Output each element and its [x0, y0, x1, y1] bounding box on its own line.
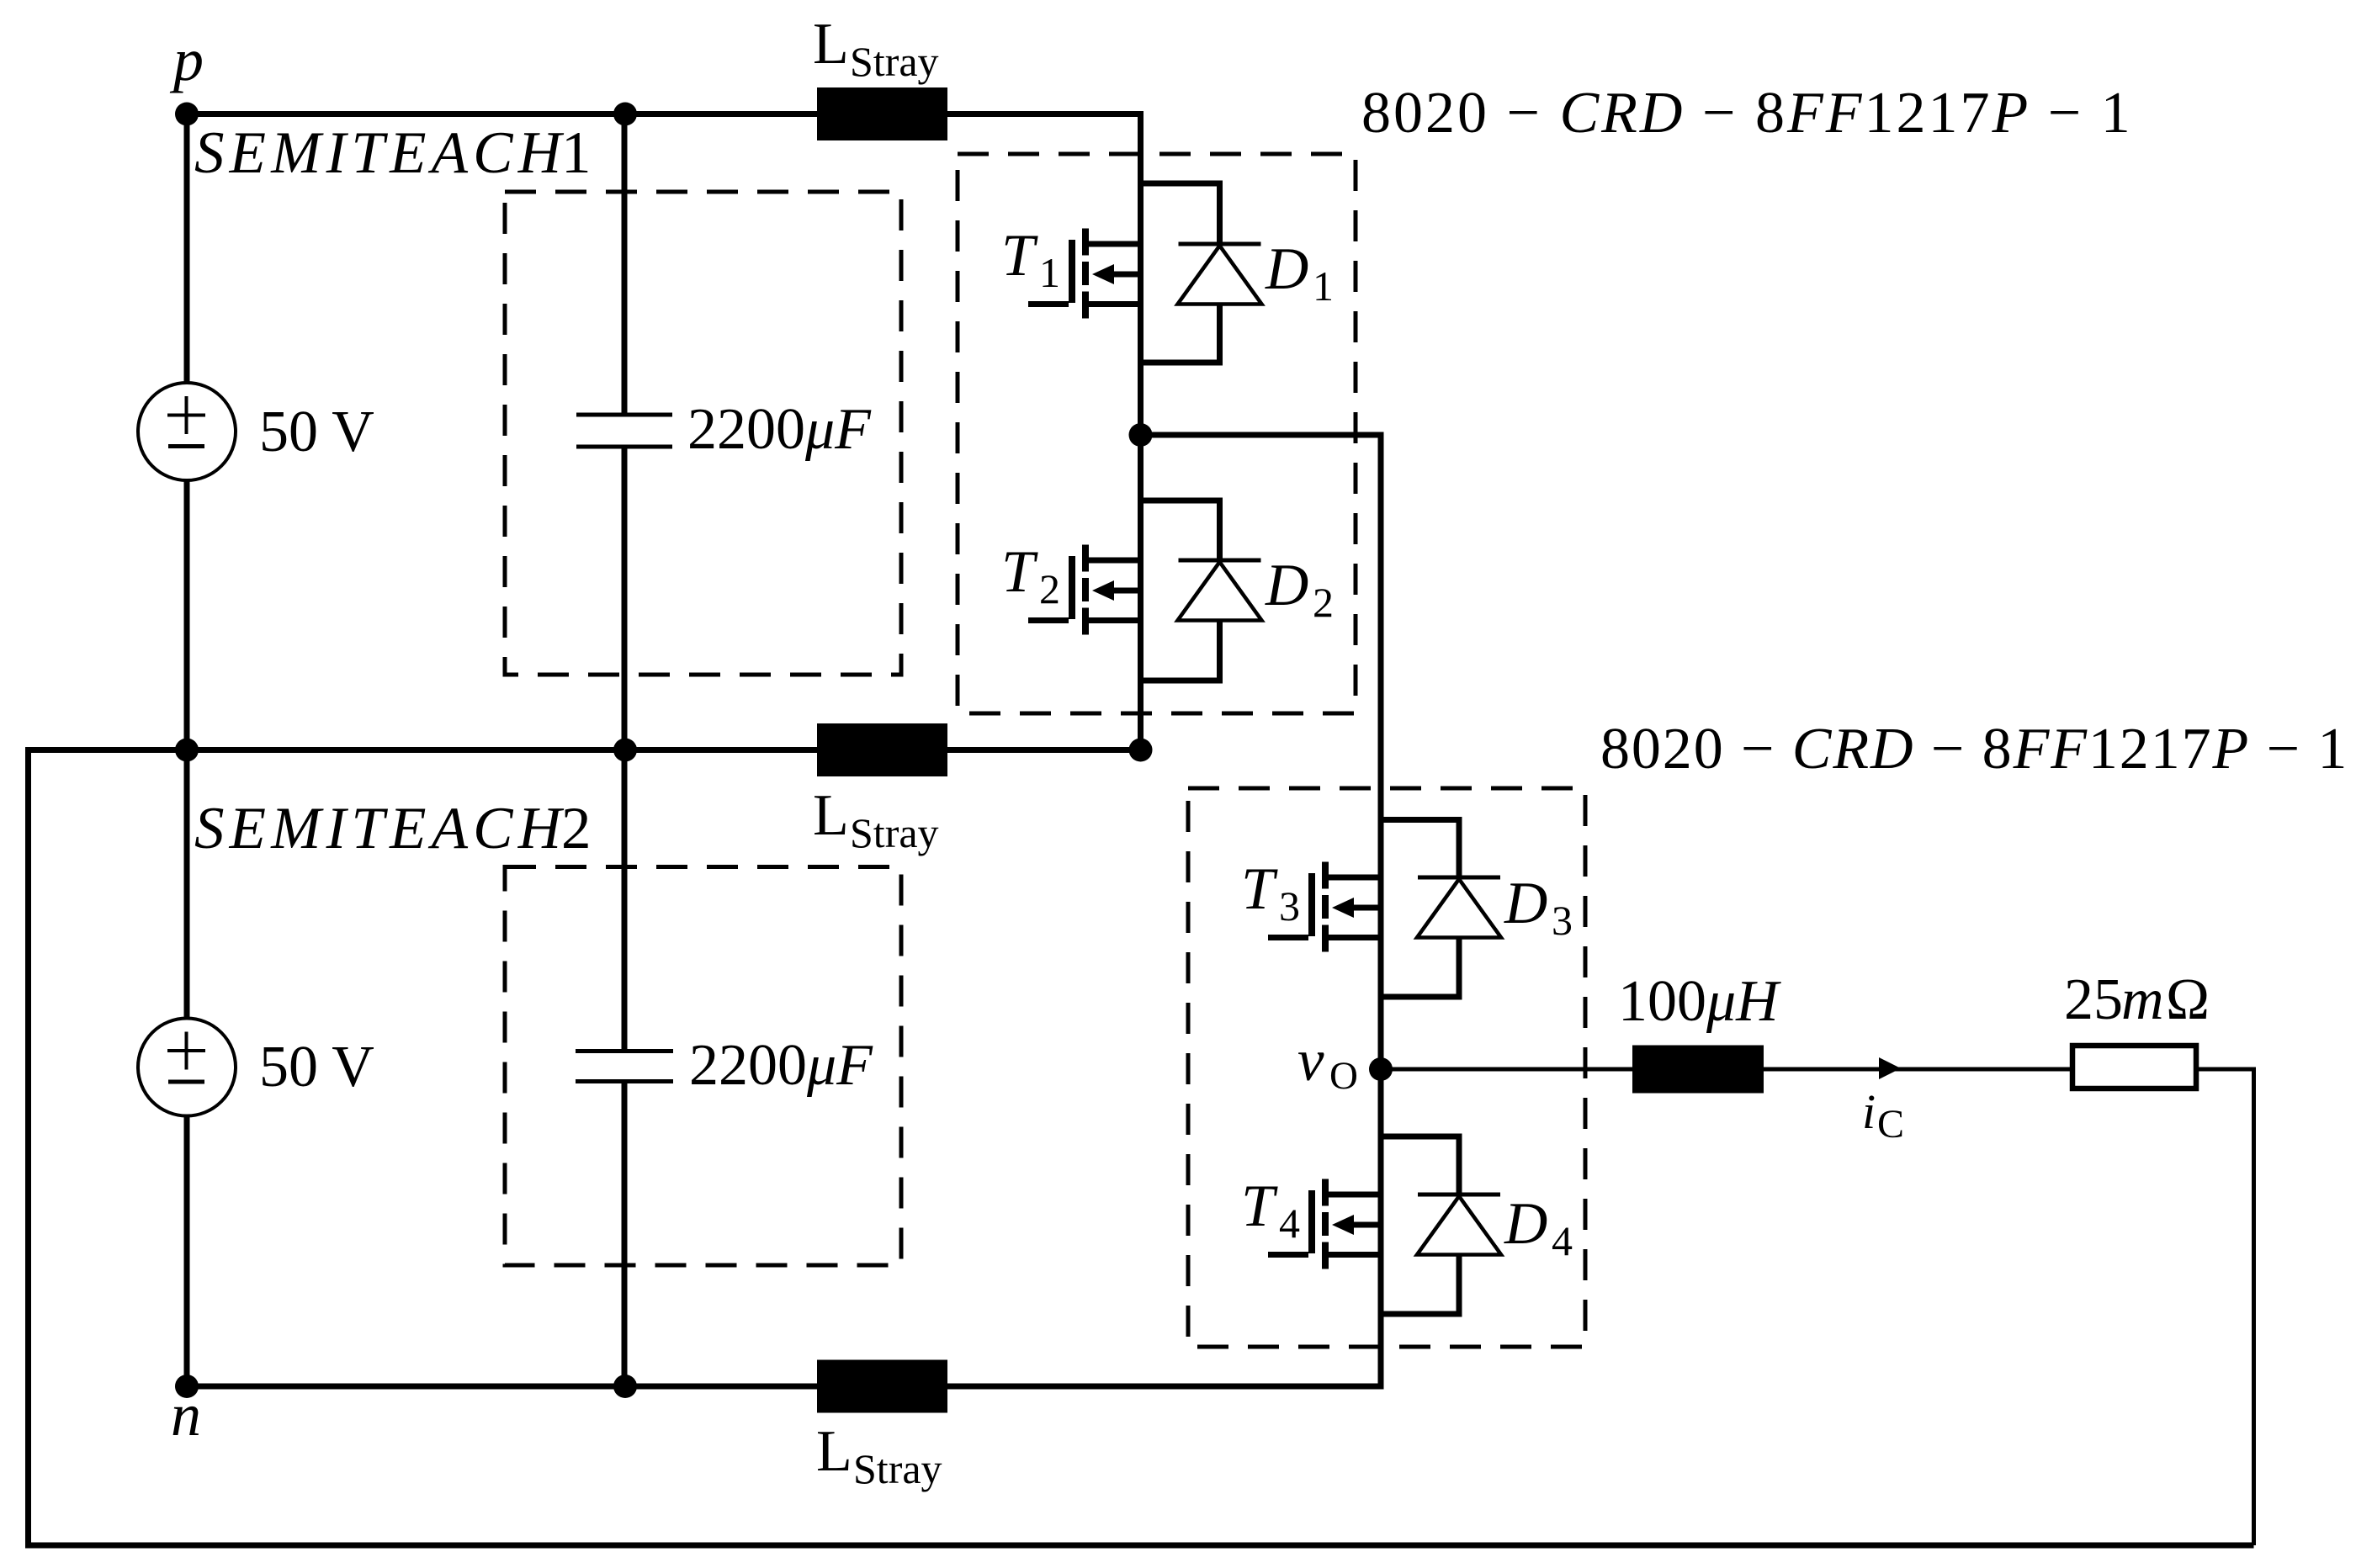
diode D1 — [1141, 183, 1335, 363]
svg-text:1: 1 — [1313, 262, 1334, 310]
svg-text:μH: μH — [1706, 969, 1781, 1034]
svg-text:Stray: Stray — [850, 38, 939, 85]
svg-text:T: T — [1001, 223, 1038, 289]
svg-text:2: 2 — [561, 796, 592, 861]
node mid rail capacitor tap — [613, 739, 637, 762]
svg-text:n: n — [171, 1381, 201, 1449]
svg-text:50 V: 50 V — [259, 1035, 374, 1099]
inductor L_Stray middle — [813, 723, 947, 856]
node n — [171, 1375, 201, 1449]
dashed box module 1 — [958, 154, 1356, 713]
junction dot top capacitor tap — [613, 103, 637, 126]
svg-text:L: L — [816, 1419, 852, 1484]
svg-text:8020 − CRD − 8FF1217P − 1: 8020 − CRD − 8FF1217P − 1 — [1600, 717, 2348, 781]
svg-text:SEMITEACH: SEMITEACH — [194, 120, 565, 186]
svg-text:O: O — [1329, 1054, 1358, 1098]
voltage source V2 50 V — [138, 1019, 374, 1116]
svg-text:L: L — [813, 12, 849, 77]
svg-text:1: 1 — [1039, 249, 1060, 296]
node bottom rail capacitor tap — [613, 1375, 637, 1398]
svg-text:SEMITEACH: SEMITEACH — [194, 796, 565, 861]
transistor T3 — [1241, 856, 1381, 952]
transistor T2 — [1001, 539, 1141, 635]
diode D3 — [1381, 820, 1573, 998]
svg-text:C: C — [1877, 1102, 1904, 1147]
wire leg1 midpoint to leg2 top — [1141, 435, 1382, 820]
svg-text:2200: 2200 — [687, 397, 805, 462]
svg-text:D: D — [1504, 1191, 1547, 1257]
wire bottom rail — [187, 1384, 1384, 1390]
svg-text:D: D — [1504, 871, 1547, 936]
svg-text:Ω: Ω — [2166, 967, 2210, 1032]
svg-text:2: 2 — [1039, 565, 1060, 612]
svg-text:μF: μF — [806, 1033, 873, 1098]
wire left rail lower — [184, 750, 190, 1387]
svg-text:p: p — [169, 26, 204, 93]
svg-text:3: 3 — [1279, 882, 1300, 930]
wire top rail — [187, 114, 1141, 750]
node leg1 midpoint — [1129, 423, 1153, 447]
svg-text:25: 25 — [2064, 967, 2123, 1032]
svg-text:T: T — [1001, 539, 1038, 605]
voltage source V1 50 V — [138, 383, 374, 480]
dashed box module 2 — [1188, 788, 1585, 1347]
node vO — [1297, 1028, 1393, 1098]
wire leg2 lower vertical — [1378, 820, 1384, 1390]
dashed box capacitor C2 — [505, 867, 901, 1266]
svg-text:50 V: 50 V — [259, 400, 374, 464]
svg-text:3: 3 — [1552, 897, 1573, 944]
svg-text:2200: 2200 — [689, 1033, 807, 1098]
capacitor C1 2200uF — [576, 114, 872, 750]
node mid rail leg1 bottom — [1129, 739, 1153, 762]
svg-text:2: 2 — [1313, 579, 1334, 626]
svg-text:1: 1 — [561, 120, 592, 186]
transistor T1 — [1001, 223, 1141, 319]
inductor 100uH — [1618, 969, 1781, 1094]
dashed box capacitor C1 — [505, 192, 901, 675]
svg-text:8020 − CRD − 8FF1217P − 1: 8020 − CRD − 8FF1217P − 1 — [1361, 81, 2133, 146]
resistor 25mOhm — [2064, 967, 2210, 1089]
svg-text:T: T — [1241, 1173, 1278, 1239]
wire resistor to right rail and down — [2199, 1069, 2254, 1545]
svg-text:Stray: Stray — [853, 1445, 942, 1492]
transistor T4 — [1241, 1173, 1381, 1269]
svg-text:m: m — [2121, 967, 2164, 1032]
svg-text:4: 4 — [1279, 1200, 1300, 1247]
svg-text:T: T — [1241, 856, 1278, 922]
svg-text:μF: μF — [804, 397, 872, 462]
svg-text:D: D — [1265, 553, 1308, 618]
wire output vO to inductor — [1381, 1067, 1632, 1072]
wire inductor to resistor with current arrow iC — [1764, 1057, 2070, 1147]
node p — [169, 26, 204, 126]
svg-text:Stray: Stray — [850, 809, 939, 856]
wire mid rail — [947, 747, 1141, 753]
svg-text:i: i — [1862, 1084, 1876, 1139]
capacitor C2 2200uF — [576, 750, 873, 1387]
svg-text:4: 4 — [1552, 1217, 1573, 1264]
svg-text:D: D — [1265, 236, 1308, 302]
svg-text:L: L — [813, 783, 849, 848]
wire outer loop — [29, 750, 2254, 1546]
wire left rail upper — [184, 114, 190, 750]
diode D4 — [1381, 1136, 1573, 1314]
inductor L_Stray bottom — [816, 1360, 947, 1493]
svg-text:v: v — [1297, 1028, 1324, 1094]
node mid rail left — [175, 739, 199, 762]
inductor L_Stray top — [813, 12, 947, 140]
svg-text:100: 100 — [1618, 969, 1706, 1034]
diode D2 — [1141, 501, 1335, 681]
